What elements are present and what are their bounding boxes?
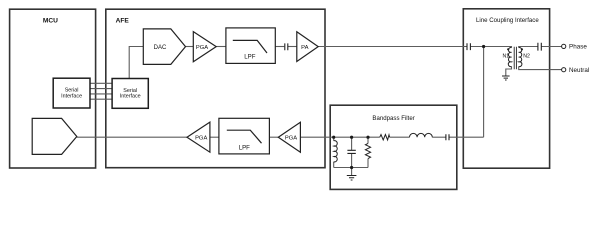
svg-text:N2: N2: [523, 54, 530, 60]
svg-text:Phase: Phase: [569, 44, 587, 51]
svg-text:PGA: PGA: [195, 135, 207, 141]
svg-text:Interface: Interface: [61, 93, 82, 99]
svg-text:LPF: LPF: [239, 145, 250, 152]
svg-text:AFE: AFE: [116, 18, 130, 25]
svg-text:MCU: MCU: [43, 18, 58, 25]
svg-text:Interface: Interface: [120, 94, 141, 100]
svg-text:LPF: LPF: [244, 54, 255, 61]
svg-text:Line Coupling Interface: Line Coupling Interface: [476, 17, 539, 24]
svg-text:Neutral: Neutral: [569, 67, 589, 74]
svg-text:PA: PA: [301, 45, 308, 51]
svg-text:PGA: PGA: [196, 45, 208, 51]
svg-text:PGA: PGA: [285, 135, 297, 141]
svg-text:N1: N1: [503, 54, 510, 60]
svg-text:DAC: DAC: [154, 45, 167, 51]
svg-text:Bandpass Filter: Bandpass Filter: [372, 115, 414, 122]
